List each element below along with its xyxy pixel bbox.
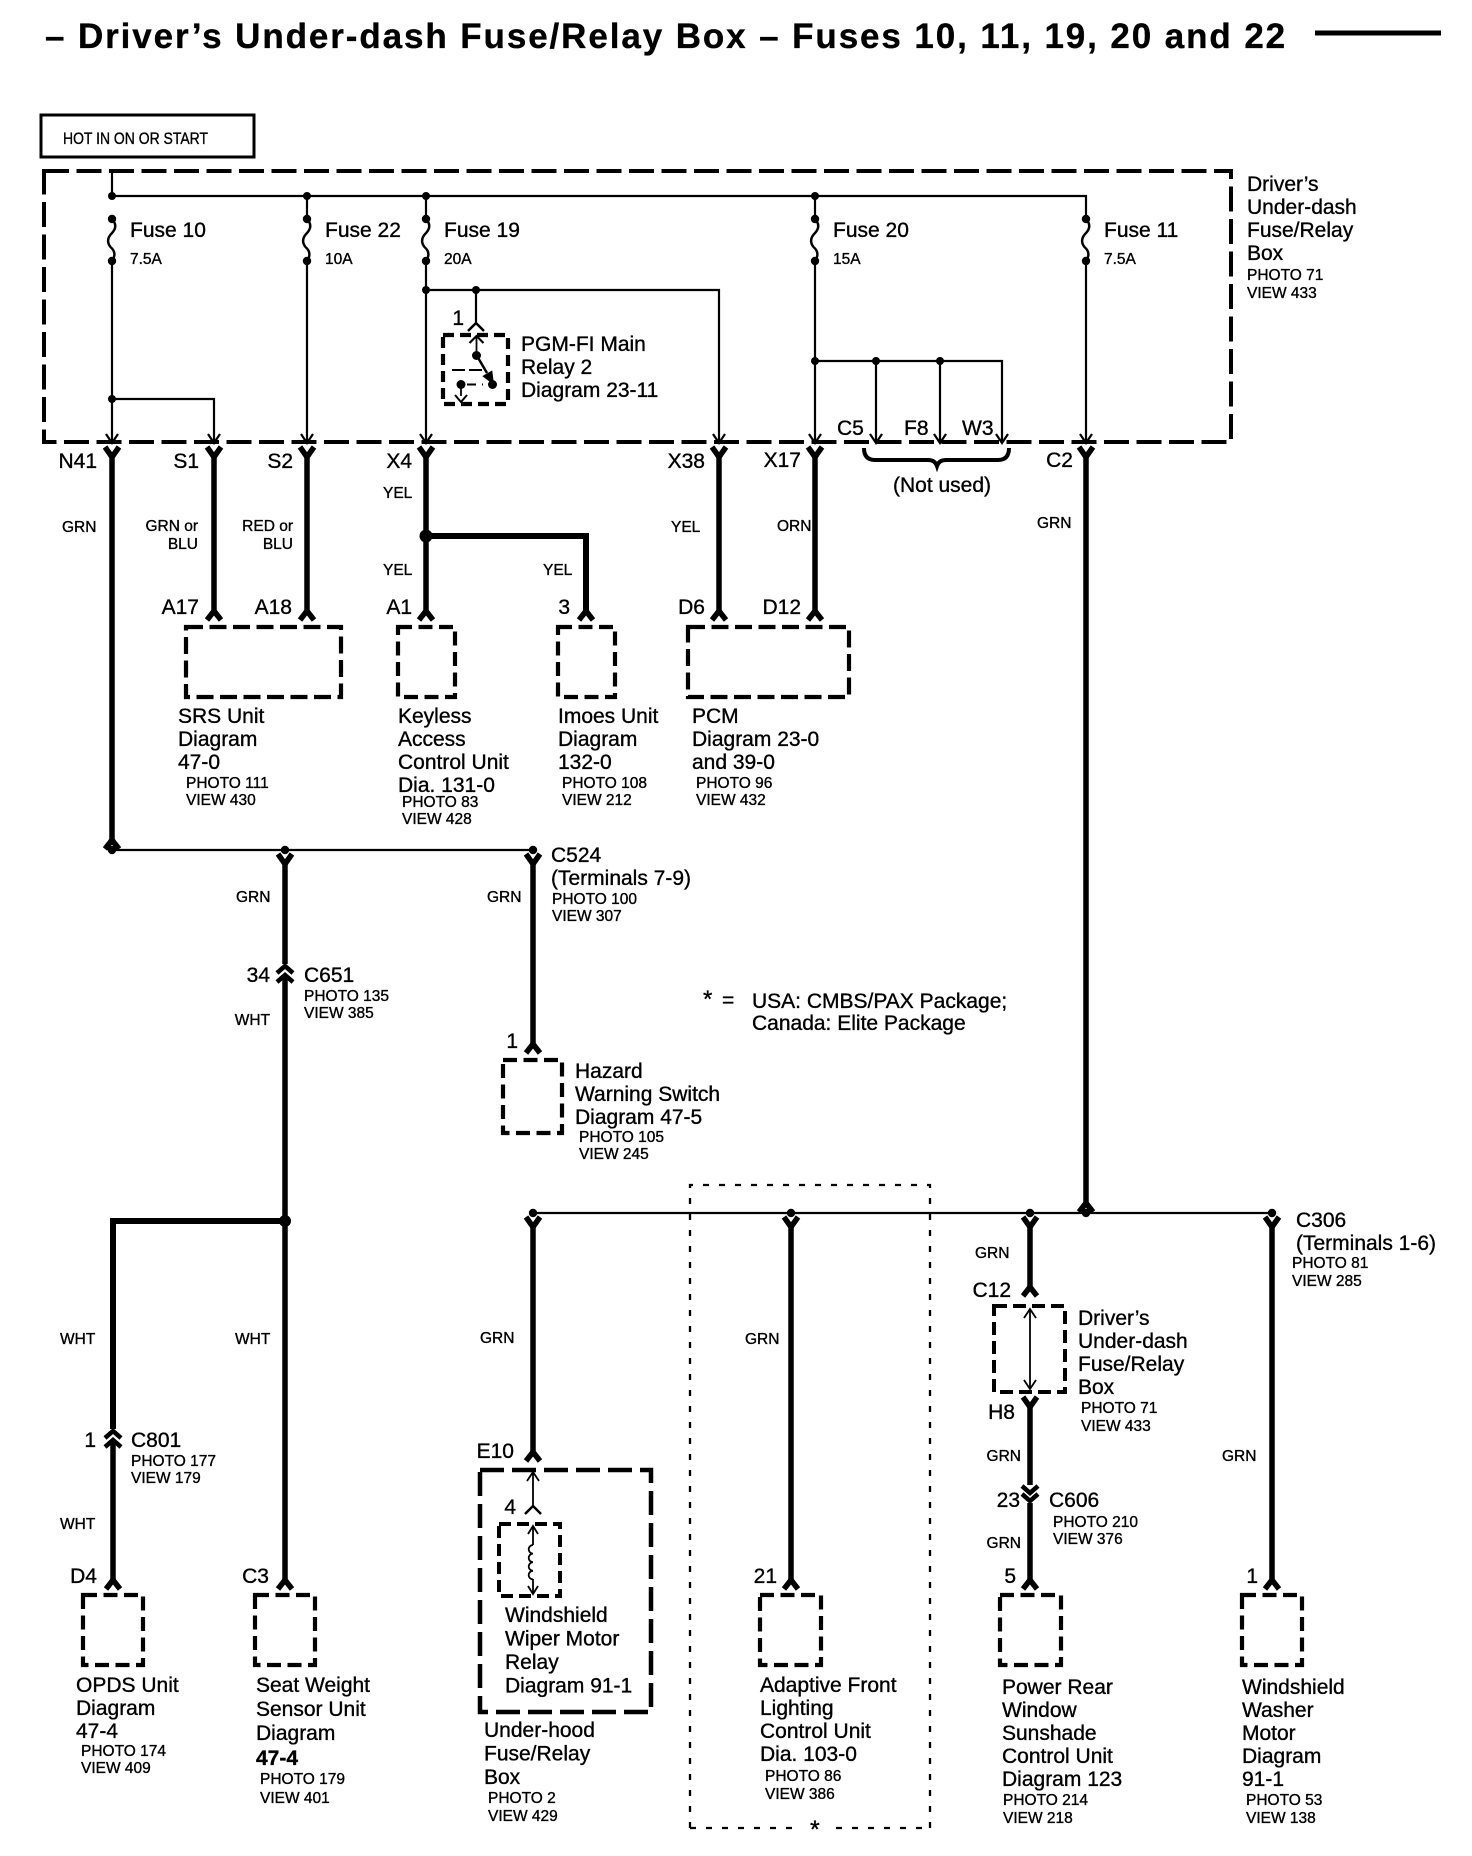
svg-text:X38: X38 — [668, 450, 705, 473]
label GRN (N41) — [62, 519, 96, 536]
svg-text:Diagram: Diagram — [256, 1722, 335, 1745]
svg-text:YEL: YEL — [543, 562, 573, 579]
svg-text:Sensor Unit: Sensor Unit — [256, 1698, 366, 1721]
connector X38 (top half) — [712, 447, 726, 457]
wire GRN C606 down — [1027, 1503, 1033, 1581]
svg-text:Fuse/Relay: Fuse/Relay — [484, 1743, 591, 1766]
svg-text:GRN: GRN — [236, 889, 270, 906]
svg-text:PHOTO 83: PHOTO 83 — [402, 794, 478, 811]
junction C2 at line2 — [1082, 1209, 1090, 1217]
connector D6 — [712, 611, 726, 620]
wire fuse10 to N41 — [111, 261, 113, 441]
connector D4 — [106, 1580, 120, 1589]
wire GRN to C12 — [1027, 1224, 1033, 1288]
wire WHT C801 to D4 — [110, 1442, 116, 1581]
svg-text:Lighting: Lighting — [760, 1697, 834, 1720]
svg-text:Power Rear: Power Rear — [1002, 1676, 1113, 1699]
connector pin 1 (washer) — [1265, 1580, 1279, 1589]
junction bus/fuse22 — [303, 192, 311, 200]
wire fuse20 column to X17 — [814, 196, 816, 441]
connector S1 (top half) — [207, 447, 221, 457]
node A17 label — [162, 596, 199, 619]
fuse 10 (7.5A) — [108, 215, 206, 268]
svg-text:A17: A17 — [162, 596, 199, 619]
label YEL (A1) — [383, 562, 413, 579]
pin 5 label — [1004, 1565, 1016, 1588]
wire X38 to D6 — [716, 454, 722, 612]
svg-text:PHOTO 96: PHOTO 96 — [696, 775, 772, 792]
svg-text:Box: Box — [1247, 242, 1284, 265]
arrow into border at N41 — [106, 434, 118, 443]
svg-text:SRS Unit: SRS Unit — [178, 705, 265, 728]
arrow into border at S1 — [208, 434, 220, 443]
svg-text:PHOTO 53: PHOTO 53 — [1246, 1792, 1322, 1809]
svg-text:C12: C12 — [972, 1279, 1011, 1302]
hazard warning switch label — [575, 1060, 720, 1163]
label ORN — [777, 518, 811, 535]
wire fuse22 column — [306, 196, 308, 441]
node X17 label — [764, 449, 801, 472]
label GRN (C606 wire) — [987, 1535, 1021, 1552]
svg-text:VIEW 245: VIEW 245 — [579, 1146, 649, 1163]
svg-text:Fuse 19: Fuse 19 — [444, 219, 520, 242]
pin 4 chevron — [525, 1506, 541, 1514]
svg-text:PHOTO 179: PHOTO 179 — [260, 1771, 345, 1788]
svg-text:4: 4 — [504, 1496, 516, 1519]
svg-text:ORN: ORN — [777, 518, 811, 535]
svg-text:PGM-FI Main: PGM-FI Main — [521, 333, 646, 356]
connector A17 — [207, 611, 221, 620]
junction C5 drop — [872, 357, 880, 365]
SRS unit label — [178, 705, 269, 809]
svg-text:– Driver’s Under-dash Fuse/Rel: – Driver’s Under-dash Fuse/Relay Box – F… — [45, 17, 1287, 56]
pin 4 label — [504, 1496, 516, 1519]
svg-text:Diagram 91-1: Diagram 91-1 — [505, 1675, 632, 1698]
C524 label — [551, 844, 691, 925]
wire WHT C651 down — [282, 977, 288, 1221]
svg-text:PHOTO 135: PHOTO 135 — [304, 988, 389, 1005]
svg-text:USA: CMBS/PAX Package;: USA: CMBS/PAX Package; — [752, 990, 1007, 1013]
svg-text:Control Unit: Control Unit — [1002, 1745, 1113, 1768]
connector D12 — [808, 611, 822, 620]
fuse 20 (15A) — [811, 215, 909, 268]
svg-text:Hazard: Hazard — [575, 1060, 643, 1083]
svg-text:WHT: WHT — [235, 1331, 271, 1348]
wire S2 to A18 — [304, 454, 310, 612]
wire net line1 (N41 to C524) — [112, 849, 533, 851]
wiper relay coil box — [499, 1524, 560, 1596]
svg-text:GRN: GRN — [480, 1330, 514, 1347]
svg-text:VIEW 409: VIEW 409 — [81, 1760, 151, 1777]
power rear window sunshade label — [1002, 1676, 1122, 1827]
connector at line2 x1030 (top half) — [1023, 1217, 1037, 1227]
svg-text:VIEW 386: VIEW 386 — [765, 1786, 835, 1803]
(Not used) label — [893, 474, 991, 497]
svg-text:Diagram: Diagram — [558, 728, 637, 751]
label GRN (C2) — [1037, 515, 1071, 532]
svg-text:Warning Switch: Warning Switch — [575, 1083, 720, 1106]
fuse 22 (10A) — [303, 215, 401, 268]
svg-text:WHT: WHT — [60, 1516, 96, 1533]
svg-text:WHT: WHT — [60, 1331, 96, 1348]
driver's under-dash box label (lower) — [1078, 1307, 1188, 1435]
svg-text:PHOTO 210: PHOTO 210 — [1053, 1514, 1138, 1531]
connector at line1 x285 (top half) — [278, 854, 292, 864]
windshield washer motor label — [1242, 1676, 1345, 1827]
connector X4 (top half) — [419, 447, 433, 457]
svg-text:C2: C2 — [1046, 449, 1073, 472]
svg-text:GRN: GRN — [1222, 1448, 1256, 1465]
svg-text:3: 3 — [558, 596, 570, 619]
svg-text:Relay 2: Relay 2 — [521, 356, 592, 379]
svg-text:47-4: 47-4 — [256, 1747, 298, 1770]
svg-text:PHOTO 177: PHOTO 177 — [131, 1453, 216, 1470]
svg-text:W3: W3 — [962, 417, 994, 440]
svg-text:VIEW 430: VIEW 430 — [186, 792, 256, 809]
wire net line2 (C306 net) — [533, 1212, 1272, 1214]
svg-text:Adaptive Front: Adaptive Front — [760, 1674, 897, 1697]
node A1 label — [386, 596, 412, 619]
svg-text:BLU: BLU — [168, 536, 198, 553]
connector pin 5 — [1023, 1580, 1037, 1589]
fuse 19 (20A) — [422, 215, 520, 268]
asterisk note — [703, 986, 1007, 1035]
svg-text:VIEW 432: VIEW 432 — [696, 792, 766, 809]
driver's under-dash fuse/relay box (dashed) — [44, 171, 1231, 442]
label GRN (hazard wire) — [487, 889, 521, 906]
svg-text:VIEW 429: VIEW 429 — [488, 1808, 558, 1825]
PCM box — [688, 627, 849, 697]
junction bus/fuse19 — [422, 192, 430, 200]
node N41 label — [58, 450, 97, 473]
svg-text:Fuse 10: Fuse 10 — [130, 219, 206, 242]
svg-text:*: * — [810, 1816, 820, 1844]
C801 label — [131, 1429, 216, 1487]
node D4 label — [70, 1565, 97, 1588]
keyless access control unit box — [398, 627, 455, 697]
junction fuse20/notused branch — [811, 357, 819, 365]
windshield wiper motor relay label — [505, 1604, 632, 1698]
svg-text:VIEW 401: VIEW 401 — [260, 1790, 330, 1807]
wire drop C5 — [875, 361, 877, 441]
relay internal: switch arm — [477, 356, 494, 384]
relay internal: top arrow into box — [470, 336, 484, 353]
seat weight sensor box — [255, 1595, 315, 1665]
svg-text:RED or: RED or — [242, 518, 293, 535]
wire X4 branch to imoes — [426, 536, 586, 612]
svg-text:(Terminals 7-9): (Terminals 7-9) — [551, 867, 691, 890]
junction line2 / C306 end — [1268, 1209, 1276, 1217]
svg-text:C3: C3 — [242, 1565, 269, 1588]
imoes unit label — [558, 705, 659, 809]
connector hazard pin 1 — [526, 1044, 540, 1053]
wire from box top to bus at N41 column — [111, 171, 113, 196]
label GRN (washer wire) — [1222, 1448, 1256, 1465]
connector at line2 x533 (top half) — [526, 1217, 540, 1227]
svg-text:YEL: YEL — [671, 519, 701, 536]
junction WHT split — [279, 1215, 291, 1227]
svg-text:VIEW 433: VIEW 433 — [1081, 1418, 1151, 1435]
svg-text:Box: Box — [1078, 1376, 1115, 1399]
svg-text:S2: S2 — [267, 450, 293, 473]
node C12 label — [972, 1279, 1011, 1302]
wire GRN to adaptive — [788, 1224, 794, 1581]
wire WHT branch to left — [113, 1221, 285, 1429]
svg-text:Windshield: Windshield — [1242, 1676, 1345, 1699]
arrow into border at W3 — [996, 434, 1008, 443]
svg-text:E10: E10 — [477, 1440, 514, 1463]
svg-text:C801: C801 — [131, 1429, 181, 1452]
junction line2 / adaptive — [787, 1209, 795, 1217]
arrow into border at X38 — [713, 434, 725, 443]
junction at line1 left end — [108, 846, 116, 854]
svg-text:Control Unit: Control Unit — [760, 1720, 871, 1743]
wire S1 to A17 — [211, 454, 217, 612]
hazard warning switch box — [503, 1060, 562, 1133]
relay label — [521, 333, 658, 402]
junction fuse10/S1 branch — [108, 395, 116, 403]
arrow into border at X4 — [420, 434, 432, 443]
svg-text:PHOTO 100: PHOTO 100 — [552, 891, 637, 908]
label GRN or BLU — [145, 518, 198, 553]
arrow into border at C5 — [870, 434, 882, 443]
svg-text:(Not used): (Not used) — [893, 474, 991, 497]
svg-text:VIEW 385: VIEW 385 — [304, 1005, 374, 1022]
wire to relay pin 1 — [475, 290, 477, 322]
SRS unit box — [186, 627, 341, 697]
svg-text:Under-hood: Under-hood — [484, 1719, 595, 1742]
connector at line2 x791 (top half) — [784, 1217, 798, 1227]
junction bus/fuse10 — [108, 192, 116, 200]
connector E10 — [526, 1452, 540, 1461]
connector C801 (chevrons) — [105, 1431, 121, 1447]
svg-text:WHT: WHT — [235, 1012, 271, 1029]
under-hood fuse/relay box — [480, 1470, 651, 1712]
label GRN (adaptive wire) — [745, 1331, 779, 1348]
svg-text:Fuse/Relay: Fuse/Relay — [1247, 219, 1354, 242]
connector C2 (top half) — [1079, 447, 1093, 457]
underhood internal wire+arrow — [527, 1472, 539, 1505]
title rule line — [1315, 31, 1441, 36]
wire GRN to washer — [1269, 1224, 1275, 1581]
svg-text:D6: D6 — [678, 596, 705, 619]
svg-text:VIEW 285: VIEW 285 — [1292, 1273, 1362, 1290]
svg-text:PHOTO 71: PHOTO 71 — [1247, 267, 1323, 284]
svg-text:7.5A: 7.5A — [130, 251, 163, 268]
fuse 11 (7.5A) — [1082, 215, 1179, 268]
connector N41 (top half) — [105, 447, 119, 457]
node A18 label — [255, 596, 292, 619]
svg-text:PHOTO 214: PHOTO 214 — [1003, 1792, 1088, 1809]
arrow into border at C2 — [1080, 434, 1092, 443]
svg-text:Imoes Unit: Imoes Unit — [558, 705, 659, 728]
svg-text:VIEW 218: VIEW 218 — [1003, 1810, 1073, 1827]
svg-text:Under-dash: Under-dash — [1078, 1330, 1188, 1353]
svg-text:1: 1 — [1246, 1565, 1258, 1588]
svg-text:GRN: GRN — [745, 1331, 779, 1348]
svg-text:Windshield: Windshield — [505, 1604, 608, 1627]
PCM label — [692, 705, 819, 809]
svg-text:PHOTO 108: PHOTO 108 — [562, 775, 647, 792]
connector S2 (top half) — [300, 447, 314, 457]
connector pin 21 — [784, 1580, 798, 1589]
title text — [45, 17, 1287, 56]
node X38 label — [668, 450, 705, 473]
svg-text:S1: S1 — [173, 450, 199, 473]
connector C2 lower end — [1079, 1203, 1093, 1212]
pin 34 label — [247, 964, 271, 987]
svg-text:VIEW 212: VIEW 212 — [562, 792, 632, 809]
svg-text:47-4: 47-4 — [76, 1720, 118, 1743]
wire drop F8 — [939, 361, 941, 441]
junction line2 / C12 — [1026, 1209, 1034, 1217]
node C3 label — [242, 1565, 269, 1588]
bus wire (top horizontal) — [112, 196, 1086, 219]
svg-text:YEL: YEL — [383, 562, 413, 579]
svg-text:OPDS Unit: OPDS Unit — [76, 1674, 179, 1697]
node D6 label — [678, 596, 705, 619]
svg-text:20A: 20A — [444, 251, 472, 268]
C5 F8 W3 terminal labels — [837, 417, 994, 440]
junction fuse19/relay branch — [422, 286, 430, 294]
arrow into border at S2 — [301, 434, 313, 443]
dotted option box — [690, 1185, 930, 1828]
arrow into border at X17 — [809, 434, 821, 443]
junction line1 / C651 wire — [281, 846, 289, 854]
C651 label — [304, 964, 389, 1022]
svg-text:N41: N41 — [58, 450, 97, 473]
pin 1 label (C801) — [84, 1429, 96, 1452]
svg-text:C524: C524 — [551, 844, 602, 867]
pin 21 label — [754, 1565, 777, 1588]
pin 3 label — [558, 596, 570, 619]
svg-text:Driver’s: Driver’s — [1247, 173, 1319, 196]
svg-text:GRN or: GRN or — [145, 518, 198, 535]
svg-text:YEL: YEL — [383, 485, 413, 502]
label YEL (X4 upper) — [383, 485, 413, 502]
svg-text:A1: A1 — [386, 596, 412, 619]
wire fuse11 to C2 — [1085, 261, 1087, 441]
svg-text:GRN: GRN — [975, 1245, 1009, 1262]
svg-text:Sunshade: Sunshade — [1002, 1722, 1097, 1745]
svg-text:47-0: 47-0 — [178, 751, 220, 774]
junction X4 branch — [420, 530, 433, 543]
label WHT (seat wire) — [235, 1331, 271, 1348]
svg-text:Seat Weight: Seat Weight — [256, 1674, 370, 1697]
node D12 label — [762, 596, 801, 619]
svg-text:34: 34 — [247, 964, 271, 987]
pin 23 label — [997, 1489, 1020, 1512]
windshield washer motor box — [1242, 1595, 1302, 1665]
relay U1 PGM-FI Main Relay 2 box — [443, 335, 508, 404]
svg-text:Canada: Elite Package: Canada: Elite Package — [752, 1012, 966, 1035]
wire GRN to E10 — [530, 1224, 536, 1453]
svg-text:GRN: GRN — [987, 1535, 1021, 1552]
svg-text:1: 1 — [452, 307, 464, 330]
svg-text:Window: Window — [1002, 1699, 1078, 1722]
label WHT (left upper) — [60, 1331, 96, 1348]
svg-text:Control Unit: Control Unit — [398, 751, 509, 774]
C12 box internal arrow — [1024, 1309, 1036, 1389]
wire GRN N41 down — [109, 454, 115, 841]
label GRN (C12 wire) — [975, 1245, 1009, 1262]
node S2 label — [267, 450, 293, 473]
wire X4 down — [423, 454, 429, 612]
connector A18 — [300, 611, 314, 620]
node X4 label — [386, 450, 412, 473]
label WHT (left lower) — [60, 1516, 96, 1533]
node H8 label — [988, 1401, 1015, 1424]
connector C651 (chevrons) — [277, 966, 293, 982]
connector at line1 x533 (top half) — [526, 854, 540, 864]
wire WHT down to C3 — [282, 1221, 288, 1581]
svg-text:and 39-0: and 39-0 — [692, 751, 775, 774]
wire GRN C2 down — [1083, 454, 1089, 1204]
svg-text:91-1: 91-1 — [1242, 1768, 1284, 1791]
junction bus/fuse20 — [811, 192, 819, 200]
connector A1 — [419, 611, 433, 620]
svg-text:PHOTO 174: PHOTO 174 — [81, 1743, 166, 1760]
connector C12 — [1023, 1287, 1037, 1296]
svg-text:15A: 15A — [833, 251, 861, 268]
relay internal: node left — [457, 380, 466, 389]
svg-text:GRN: GRN — [62, 519, 96, 536]
svg-text:Keyless: Keyless — [398, 705, 472, 728]
connector C606 (chevrons) — [1022, 1486, 1038, 1501]
svg-text:VIEW 433: VIEW 433 — [1247, 285, 1317, 302]
svg-text:1: 1 — [506, 1030, 518, 1053]
connector at line2 x1272 (top half) — [1265, 1217, 1279, 1227]
svg-text:C306: C306 — [1296, 1209, 1346, 1232]
relay pin1 connector chevron — [468, 323, 484, 331]
svg-text:Driver’s: Driver’s — [1078, 1307, 1150, 1330]
svg-text:GRN: GRN — [487, 889, 521, 906]
relay internal: node top — [472, 351, 481, 360]
svg-text:C5: C5 — [837, 417, 864, 440]
relay internal: dashed link lower — [467, 384, 483, 386]
svg-text:VIEW 428: VIEW 428 — [402, 811, 472, 828]
fuse/relay box label — [1247, 173, 1357, 302]
svg-text:PCM: PCM — [692, 705, 739, 728]
svg-text:H8: H8 — [988, 1401, 1015, 1424]
label WHT (C651 wire) — [235, 1012, 271, 1029]
wire GRN to hazard — [530, 861, 536, 1045]
svg-text:C606: C606 — [1049, 1489, 1099, 1512]
under-hood box label — [484, 1719, 595, 1825]
label GRN (C651 wire) — [236, 889, 270, 906]
svg-text:Diagram 23-11: Diagram 23-11 — [521, 379, 658, 402]
wire GRN H8 down — [1027, 1404, 1033, 1485]
pin 1 label (hazard) — [506, 1030, 518, 1053]
svg-text:Fuse 11: Fuse 11 — [1104, 219, 1178, 242]
svg-text:X4: X4 — [386, 450, 412, 473]
svg-text:7.5A: 7.5A — [1104, 251, 1137, 268]
svg-text:PHOTO 111: PHOTO 111 — [186, 775, 269, 792]
svg-text:Motor: Motor — [1242, 1722, 1296, 1745]
junction line2 / E10 — [529, 1209, 537, 1217]
label RED or BLU — [242, 518, 293, 553]
svg-text:21: 21 — [754, 1565, 777, 1588]
seat weight sensor label — [256, 1674, 370, 1807]
adaptive front lighting box — [760, 1595, 821, 1665]
brace (not used) — [864, 448, 1009, 466]
wire fuse19 branch to X38 — [426, 290, 719, 441]
svg-text:*: * — [703, 986, 712, 1013]
svg-text:5: 5 — [1004, 1565, 1016, 1588]
connector H8 (top half) — [1023, 1397, 1037, 1407]
svg-text:GRN: GRN — [987, 1448, 1021, 1465]
svg-text:Access: Access — [398, 728, 466, 751]
